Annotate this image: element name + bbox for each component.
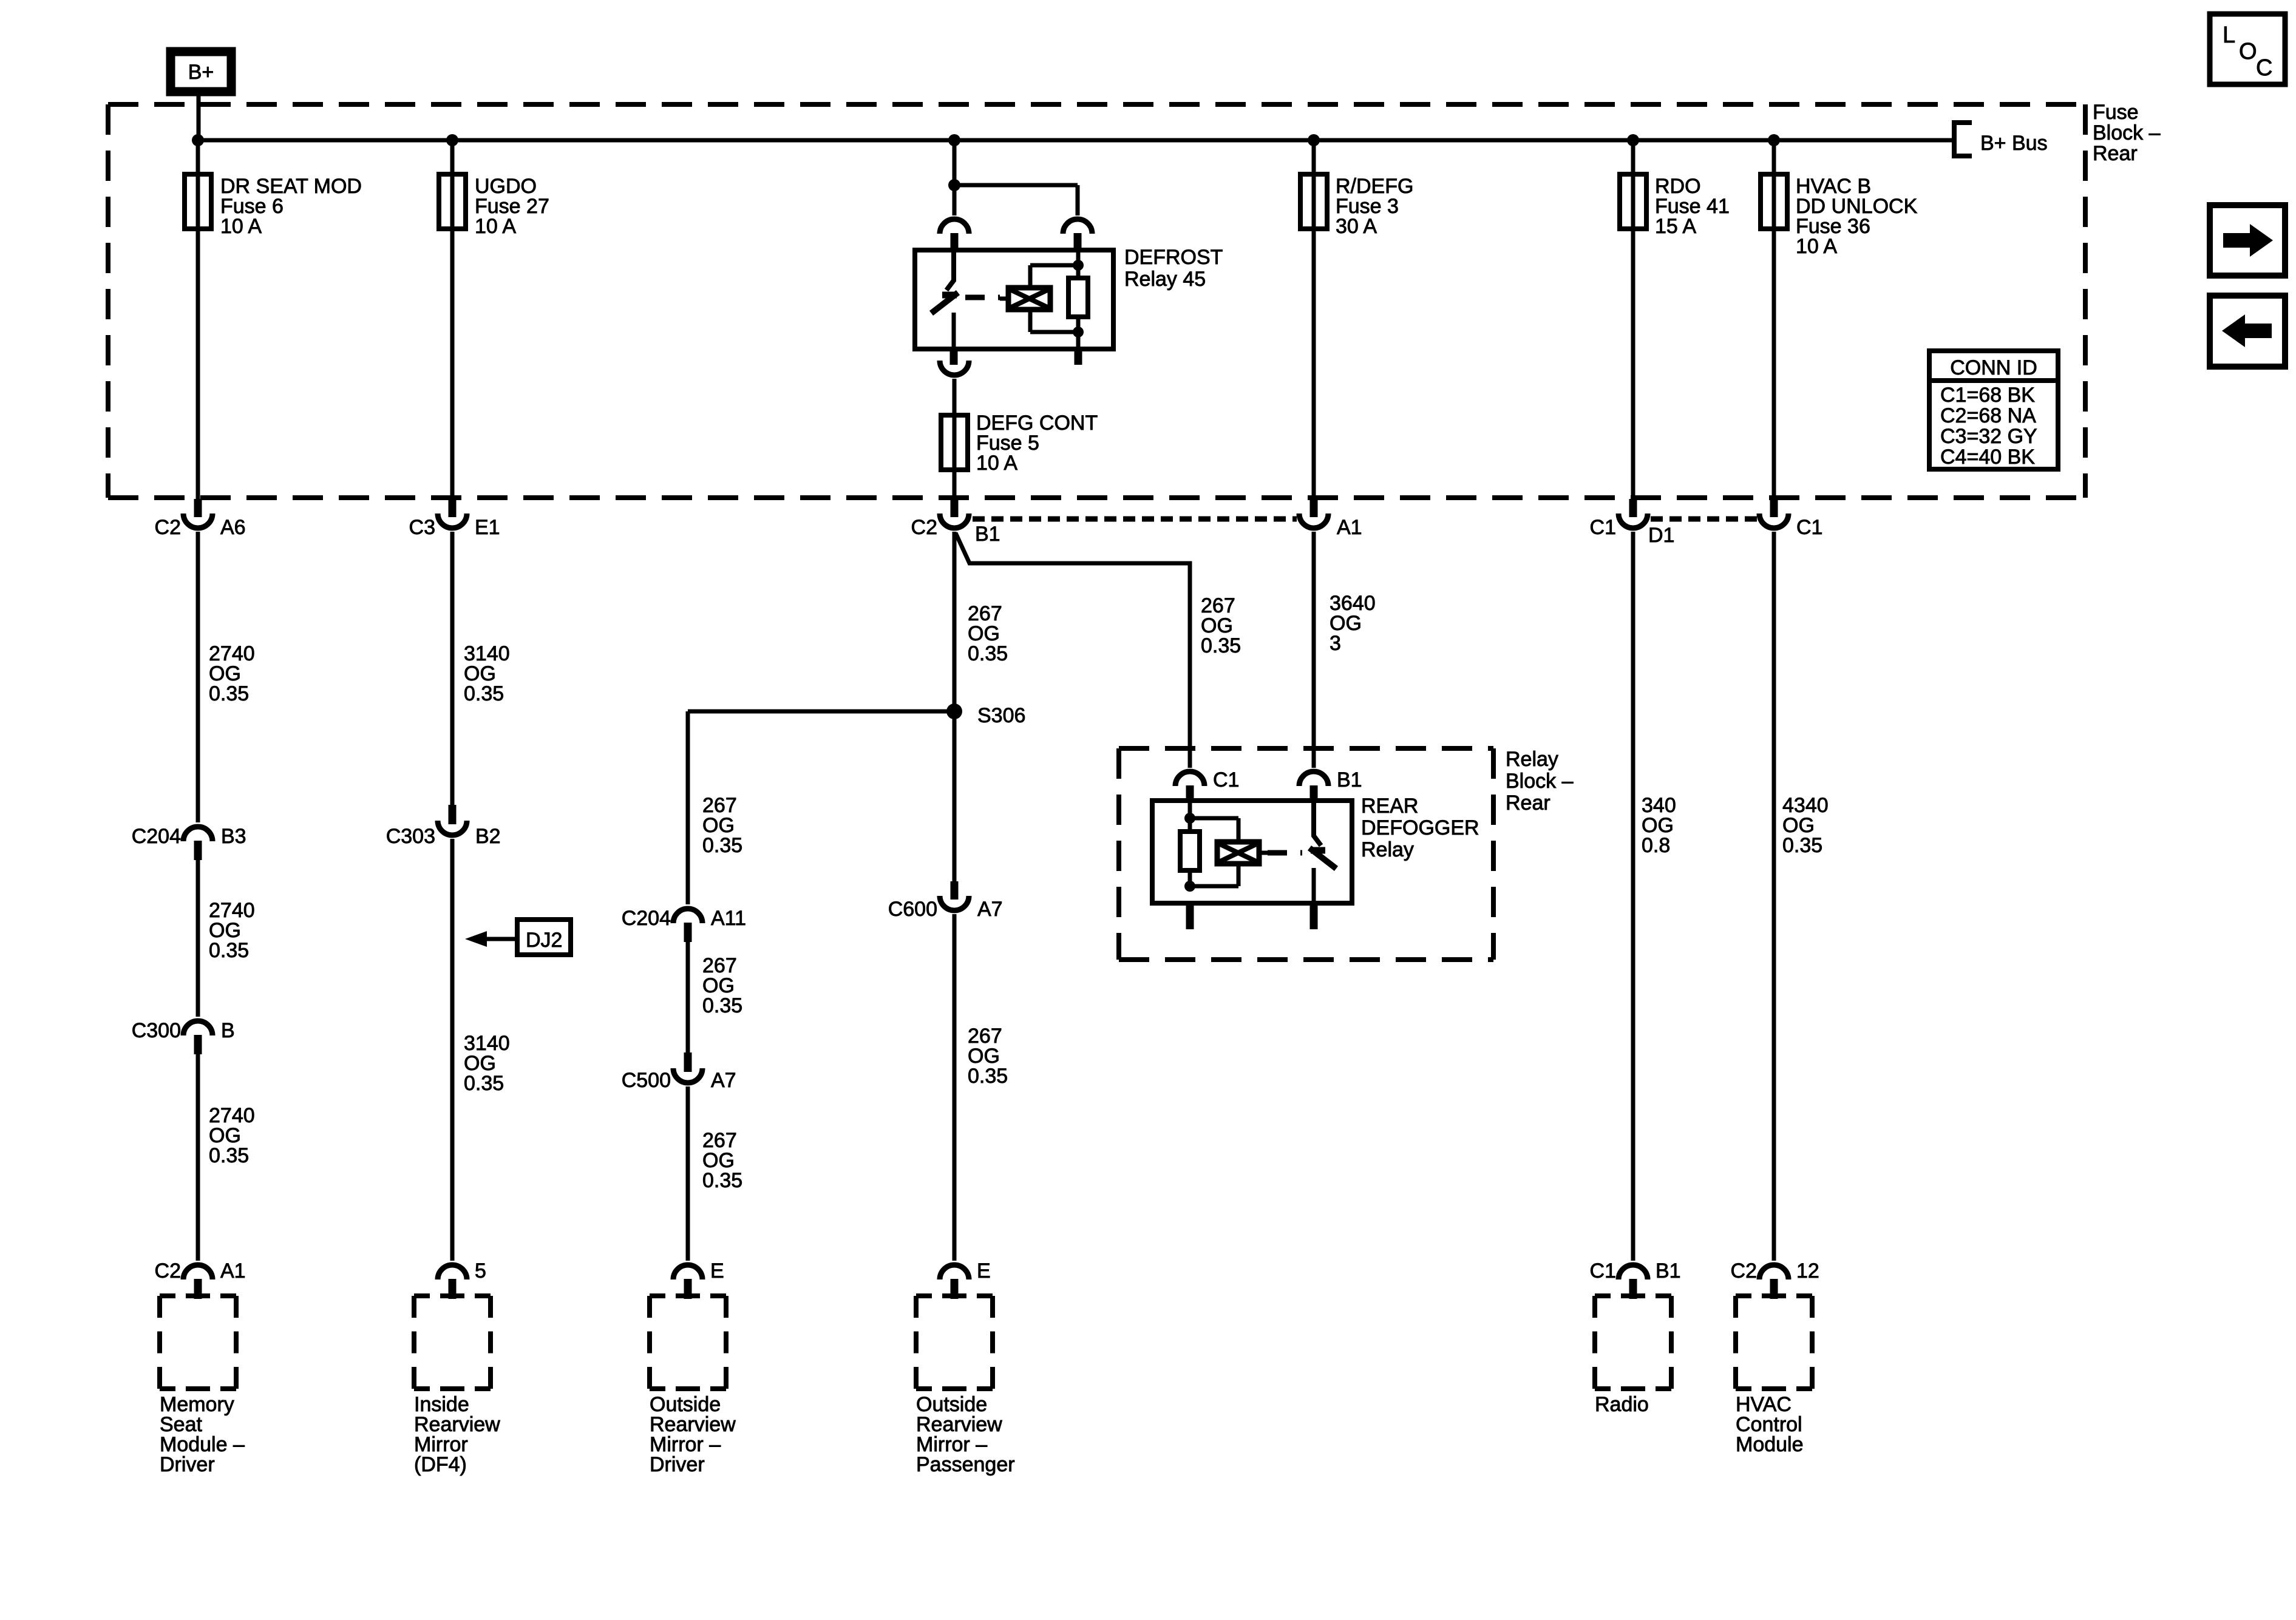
component box HVAC Control Module <box>1736 1296 1812 1389</box>
svg-text:Fuse: Fuse <box>2093 101 2139 124</box>
svg-text:B: B <box>221 1019 235 1042</box>
rear relay switch blade <box>1309 848 1336 869</box>
svg-text:C2: C2 <box>911 516 937 539</box>
bus junction node 3 <box>948 134 960 146</box>
forward arrow box <box>2210 205 2285 276</box>
svg-text:A1: A1 <box>1337 516 1362 539</box>
wire 267 OG passenger segment 2 <box>953 914 957 1261</box>
connector C2 B1 bowl <box>940 513 969 528</box>
svg-text:Driver: Driver <box>160 1453 215 1476</box>
svg-text:Relay: Relay <box>1506 748 1558 771</box>
svg-text:(DF4): (DF4) <box>414 1453 467 1476</box>
connector face dotted line D1 to C1 <box>1651 517 1757 522</box>
junction defrost relay feed <box>948 179 960 191</box>
Outside Rearview Mirror - Passenger pin stub <box>951 1279 959 1299</box>
connector stub at x2164 <box>1310 499 1318 517</box>
connector stub at x1572 <box>951 499 959 517</box>
svg-text:0.35: 0.35 <box>1782 834 1822 857</box>
svg-text:DEFROST: DEFROST <box>1124 246 1223 269</box>
wire C2-B1 jog to relay coil feed <box>956 533 1190 768</box>
svg-text:3: 3 <box>1330 632 1341 655</box>
svg-text:0.35: 0.35 <box>968 1065 1008 1088</box>
component box Outside Rearview Mirror - Passenger <box>916 1296 993 1389</box>
connector C303 B2 <box>438 821 467 835</box>
label Outside Rearview Mirror - Driver <box>650 1393 736 1476</box>
wire relay 45 coil top lead <box>1028 265 1033 288</box>
svg-text:C300: C300 <box>132 1019 181 1042</box>
label fuse 3 <box>1336 175 1413 238</box>
wire bus to defrost relay <box>953 140 957 185</box>
svg-text:L: L <box>2223 22 2235 48</box>
svg-text:B3: B3 <box>221 825 246 848</box>
rear defogger relay pin C1 stub <box>1186 785 1194 802</box>
relay 45 pin 85 stub <box>1075 349 1082 365</box>
C303 B2 pin stub <box>449 805 457 824</box>
component box Outside Rearview Mirror - Driver <box>650 1296 726 1389</box>
connector A1 bowl <box>1299 513 1328 528</box>
label fuse 5 <box>976 412 1098 475</box>
svg-text:10 A: 10 A <box>220 215 262 238</box>
wire 2740 OG segment 1 <box>196 532 200 822</box>
svg-text:C3=32 GY: C3=32 GY <box>1940 425 2037 448</box>
svg-text:5: 5 <box>475 1259 486 1283</box>
relay 45 pin left stub <box>951 233 959 252</box>
svg-text:B1: B1 <box>975 523 1000 546</box>
label 267 OG 0.35 passenger lower <box>968 1025 1008 1088</box>
connector C500 A7 <box>673 1068 702 1083</box>
svg-text:C204: C204 <box>622 907 671 930</box>
LOC icon box <box>2210 14 2285 84</box>
svg-text:C303: C303 <box>386 825 435 848</box>
component box Radio <box>1595 1296 1671 1389</box>
wire rear relay coil bottom lead <box>1237 864 1241 886</box>
Relay Block - Rear dashed border <box>1119 748 1493 960</box>
wire 3140 OG segment 2 <box>450 839 455 1261</box>
connector HVAC Control Module pin 12 <box>1759 1265 1788 1279</box>
splice S306 <box>946 703 962 719</box>
connector C3 E1 bowl <box>438 513 467 528</box>
wire rear relay resistor top wire <box>1188 801 1192 832</box>
connector face dotted line C2/B1 to A1 <box>973 517 1297 522</box>
Inside Rearview Mirror (DF4) pin stub <box>449 1279 457 1299</box>
svg-text:B+ Bus: B+ Bus <box>1980 132 2048 155</box>
label Radio <box>1595 1393 1649 1416</box>
wire relay 45 resistor top wire <box>1076 250 1081 278</box>
svg-text:0.35: 0.35 <box>702 994 742 1017</box>
svg-text:C600: C600 <box>888 898 937 921</box>
wire 2740 OG segment 3 <box>196 1054 200 1261</box>
svg-text:B1: B1 <box>1656 1259 1681 1283</box>
svg-text:C1: C1 <box>1213 768 1239 791</box>
wire rear relay coil top loop <box>1190 816 1238 821</box>
relay 45 resistor <box>1068 278 1088 317</box>
relay 45 node top <box>1073 260 1084 271</box>
connector stub at x2922 <box>1770 499 1778 517</box>
label 340 OG 0.8 <box>1642 794 1676 857</box>
relay 45 switch contact bar <box>942 292 957 299</box>
Radio pin stub <box>1629 1279 1637 1299</box>
rear relay pin stub right below <box>1310 903 1318 929</box>
svg-text:10 A: 10 A <box>475 215 516 238</box>
svg-text:Passenger: Passenger <box>916 1453 1015 1476</box>
svg-text:30 A: 30 A <box>1336 215 1377 238</box>
back arrow box <box>2210 296 2285 367</box>
rear relay pin stub left below <box>1186 903 1194 929</box>
svg-text:DEFOGGER: DEFOGGER <box>1361 816 1479 839</box>
wire branch to relay 45 coil pin <box>954 183 1078 188</box>
rear relay actuating linkage <box>1268 850 1302 856</box>
label fuse 27 <box>475 175 549 238</box>
DJ2 box <box>517 920 571 955</box>
wire S306 branch to driver mirror <box>688 710 954 714</box>
wire rear relay coil right lead <box>1259 851 1268 855</box>
bus junction node 4 <box>1308 134 1320 146</box>
wire 3640 OG wire <box>1312 532 1316 768</box>
connector Outside Rearview Mirror - Passenger pin E <box>940 1265 969 1279</box>
bus junction node 1 <box>192 134 204 146</box>
label Fuse Block - Rear <box>2093 101 2161 165</box>
svg-text:E: E <box>977 1259 991 1283</box>
connector stub at x745 <box>449 499 457 517</box>
svg-text:C2: C2 <box>155 516 181 539</box>
wire rear relay switch lower contact <box>1312 868 1316 903</box>
B+ battery feed box <box>171 52 231 92</box>
wire 267 OG passenger to C600 <box>953 532 957 881</box>
svg-text:Relay: Relay <box>1361 838 1414 861</box>
label Memory Seat Module - Driver <box>160 1393 245 1476</box>
svg-text:D1: D1 <box>1648 524 1674 547</box>
label 2740 OG 0.35 seg2 <box>209 899 255 962</box>
HVAC Control Module pin stub <box>1770 1279 1778 1299</box>
bus junction node 2 <box>446 134 458 146</box>
svg-text:Driver: Driver <box>650 1453 705 1476</box>
label 4340 OG 0.35 <box>1782 794 1829 857</box>
Memory Seat Module - Driver pin stub <box>194 1279 202 1299</box>
connector Radio pin B1 <box>1618 1265 1648 1279</box>
wire bus through Fuse 6 to C2-A6 <box>196 140 200 500</box>
rear relay resistor <box>1180 832 1200 870</box>
svg-text:E1: E1 <box>475 516 500 539</box>
connector stub at x2690 <box>1629 499 1637 517</box>
DJ2 reference arrow <box>484 937 517 941</box>
label 3640 OG 3 <box>1330 592 1376 655</box>
connector C600 A7 <box>940 896 969 910</box>
relay 45 pin right stub <box>1074 233 1082 252</box>
svg-text:S306: S306 <box>977 704 1025 727</box>
svg-text:0.35: 0.35 <box>1201 634 1241 657</box>
relay 45 pin 87 stub <box>950 349 958 365</box>
connector stub at x326 <box>194 499 202 517</box>
relay 45 socket terminal left <box>940 219 969 234</box>
svg-text:0.35: 0.35 <box>464 682 504 705</box>
label REAR DEFOGGER Relay <box>1361 795 1479 861</box>
bus junction node 5 <box>1627 134 1639 146</box>
relay REAR DEFOGGER outline <box>1152 801 1352 903</box>
wire rear relay resistor bottom wire <box>1188 870 1192 886</box>
label 267 OG 0.35 driver 1 <box>702 794 742 857</box>
label Relay Block - Rear <box>1506 748 1574 815</box>
fuse F6 DR SEAT MOD <box>185 174 211 229</box>
relay 45 socket terminal right <box>1063 219 1092 234</box>
CONN ID table <box>1929 351 2058 469</box>
label fuse 6 <box>220 175 362 238</box>
label 267 OG 0.35 driver 3 <box>702 1129 742 1192</box>
svg-text:Rear: Rear <box>1506 791 1550 815</box>
svg-text:12: 12 <box>1796 1259 1819 1283</box>
svg-text:10 A: 10 A <box>976 452 1017 475</box>
svg-text:C: C <box>2256 55 2272 81</box>
wire rear relay coil top lead <box>1237 818 1241 842</box>
C300 B pin stub <box>194 1035 202 1054</box>
svg-text:Relay 45: Relay 45 <box>1124 268 1206 291</box>
C500 A7 pin stub <box>684 1052 692 1072</box>
svg-text:0.35: 0.35 <box>702 1169 742 1192</box>
relay K45 DEFROST outline <box>915 250 1113 349</box>
rear relay coil <box>1217 842 1259 864</box>
relay 45 actuating linkage <box>965 295 1000 300</box>
label fuse 41 <box>1655 175 1730 238</box>
relay 45 output socket terminal <box>940 361 969 375</box>
fuse F3 R/DEFG <box>1300 174 1327 229</box>
svg-text:Block –: Block – <box>1506 770 1574 793</box>
connector C300 B <box>183 1021 212 1035</box>
wire 340 OG wire <box>1631 532 1635 1261</box>
rear defogger relay pin B1 stub <box>1310 785 1318 802</box>
svg-text:C3: C3 <box>409 516 435 539</box>
wire bus through Fuse 41 to C1-D1 <box>1631 140 1635 500</box>
wire B+ drop <box>197 92 201 140</box>
svg-text:B+: B+ <box>188 61 214 84</box>
svg-text:Radio: Radio <box>1595 1393 1649 1416</box>
svg-text:0.35: 0.35 <box>209 1144 249 1167</box>
svg-text:B1: B1 <box>1337 768 1362 791</box>
svg-text:0.35: 0.35 <box>209 682 249 705</box>
svg-text:0.35: 0.35 <box>209 939 249 962</box>
label 267 OG 0.35 passenger upper <box>968 602 1008 665</box>
relay 45 switch blade <box>931 293 958 313</box>
svg-text:B2: B2 <box>475 825 501 848</box>
wire relay 45 coil bottom lead <box>1028 310 1033 332</box>
back arrow <box>2222 314 2272 347</box>
svg-text:A6: A6 <box>220 516 246 539</box>
relay 45 node bottom <box>1073 327 1084 337</box>
fuse F27 UGDO <box>439 174 466 229</box>
wire bus through Fuse 3 to A1 <box>1312 140 1316 500</box>
wire relay 45 coil bottom loop <box>1030 330 1078 334</box>
wire bus through Fuse 27 to C3-E1 <box>450 140 455 500</box>
wire 4340 OG wire <box>1772 532 1776 1261</box>
connector Memory Seat Module - Driver pin A1 <box>183 1265 212 1279</box>
svg-text:0.35: 0.35 <box>702 834 742 857</box>
label 3140 OG 0.35 seg1 <box>464 642 510 705</box>
C600 A7 pin stub <box>951 881 959 900</box>
connector C1 D1 bowl <box>1618 513 1648 528</box>
wire 267 OG driver segment 2 <box>686 942 690 1052</box>
wire relay 45 coil top loop <box>1030 263 1078 268</box>
svg-text:C1: C1 <box>1796 516 1822 539</box>
svg-text:10 A: 10 A <box>1796 235 1837 258</box>
label Outside Rearview Mirror - Passenger <box>916 1393 1015 1476</box>
connector C204 B3 <box>183 827 212 841</box>
CONN ID rows <box>1940 384 2037 469</box>
label 2740 OG 0.35 seg1 <box>209 642 255 705</box>
Fuse Block - Rear dashed border <box>108 104 2085 498</box>
label 2740 OG 0.35 seg3 <box>209 1104 255 1167</box>
label HVAC Control Module <box>1736 1393 1804 1456</box>
svg-text:C1=68 BK: C1=68 BK <box>1940 384 2035 407</box>
bus junction node 6 <box>1768 134 1780 146</box>
label 3140 OG 0.35 seg2 <box>464 1032 510 1095</box>
rear relay switch contact bar <box>1311 847 1325 854</box>
rear relay switch upper contact <box>1314 801 1321 846</box>
svg-text:0.35: 0.35 <box>968 642 1008 665</box>
svg-text:C4=40 BK: C4=40 BK <box>1940 446 2035 469</box>
rear relay node bottom <box>1184 881 1195 892</box>
relay block terminal B1 <box>1299 771 1328 786</box>
fuse F41 RDO <box>1620 174 1646 229</box>
wire relay 45 right pin lower <box>1076 332 1081 349</box>
svg-text:A11: A11 <box>711 907 746 930</box>
label fuse 36 <box>1796 175 1918 258</box>
component box Inside Rearview Mirror (DF4) <box>414 1296 491 1389</box>
svg-text:CONN ID: CONN ID <box>1950 356 2037 379</box>
svg-text:C500: C500 <box>622 1069 671 1092</box>
connector Inside Rearview Mirror (DF4) pin 5 <box>438 1265 467 1279</box>
component box Memory Seat Module - Driver <box>160 1296 236 1389</box>
wire 3140 OG segment 1 <box>450 532 455 807</box>
svg-text:0.35: 0.35 <box>464 1072 504 1095</box>
label 267 OG 0.35 driver 2 <box>702 954 742 1017</box>
fuse F5 DEFG CONT <box>941 415 968 470</box>
wire relay 45 coil left lead <box>1000 297 1008 301</box>
wire to relay 45 pin 30 <box>953 185 957 215</box>
svg-text:A7: A7 <box>711 1069 736 1092</box>
svg-text:A7: A7 <box>977 898 1003 921</box>
label 267 OG 0.35 coil feed <box>1201 594 1241 657</box>
svg-text:C1: C1 <box>1590 1259 1616 1283</box>
svg-text:C1: C1 <box>1590 516 1616 539</box>
wire bus through Fuse 36 to C1 <box>1772 140 1776 500</box>
connector C2 A6 bowl <box>183 513 212 528</box>
B+ Bus bracket terminal <box>1954 123 1972 156</box>
wire 267 OG driver segment 1 <box>686 711 690 904</box>
wire 267 OG driver segment 3 <box>686 1086 690 1261</box>
svg-text:C204: C204 <box>132 825 181 848</box>
C204 A11 pin stub <box>684 923 692 942</box>
wire relay 45 resistor bottom wire <box>1076 317 1081 332</box>
relay 45 switch upper contact <box>946 250 954 290</box>
svg-text:DJ2: DJ2 <box>526 929 562 952</box>
svg-text:REAR: REAR <box>1361 795 1418 818</box>
svg-text:E: E <box>710 1259 724 1283</box>
relay 45 coil <box>1008 288 1050 310</box>
fuse F36 HVAC B <box>1761 174 1787 229</box>
svg-text:Module: Module <box>1736 1433 1804 1456</box>
Outside Rearview Mirror - Driver pin stub <box>684 1279 692 1299</box>
wire to relay 45 pin 86 <box>1076 185 1080 215</box>
svg-text:C2: C2 <box>155 1259 181 1283</box>
forward arrow <box>2223 224 2273 257</box>
connector Outside Rearview Mirror - Driver pin E <box>673 1265 702 1279</box>
wire B+ bus line <box>198 138 1954 143</box>
wire relay 45 switch lower contact <box>952 313 956 349</box>
connector C204 A11 <box>673 909 702 923</box>
svg-text:A1: A1 <box>220 1259 246 1283</box>
svg-text:C2: C2 <box>1731 1259 1757 1283</box>
svg-text:Block –: Block – <box>2093 121 2161 144</box>
svg-text:Rear: Rear <box>2093 142 2138 165</box>
C204 B3 pin stub <box>194 841 202 860</box>
rear relay node top <box>1184 813 1195 824</box>
svg-text:15 A: 15 A <box>1655 215 1696 238</box>
svg-text:O: O <box>2239 39 2257 64</box>
wire rear relay coil bottom loop <box>1190 884 1238 889</box>
relay block terminal C1 <box>1175 771 1204 786</box>
wire relay output through Fuse 5 to C2-B1 <box>953 379 957 499</box>
label Inside Rearview Mirror (DF4) <box>414 1393 500 1476</box>
wire 2740 OG segment 2 <box>196 860 200 1017</box>
svg-text:C2=68 NA: C2=68 NA <box>1940 404 2036 427</box>
connector C1 bowl <box>1759 513 1788 528</box>
svg-text:0.8: 0.8 <box>1642 834 1670 857</box>
label DEFROST Relay 45 <box>1124 246 1223 291</box>
